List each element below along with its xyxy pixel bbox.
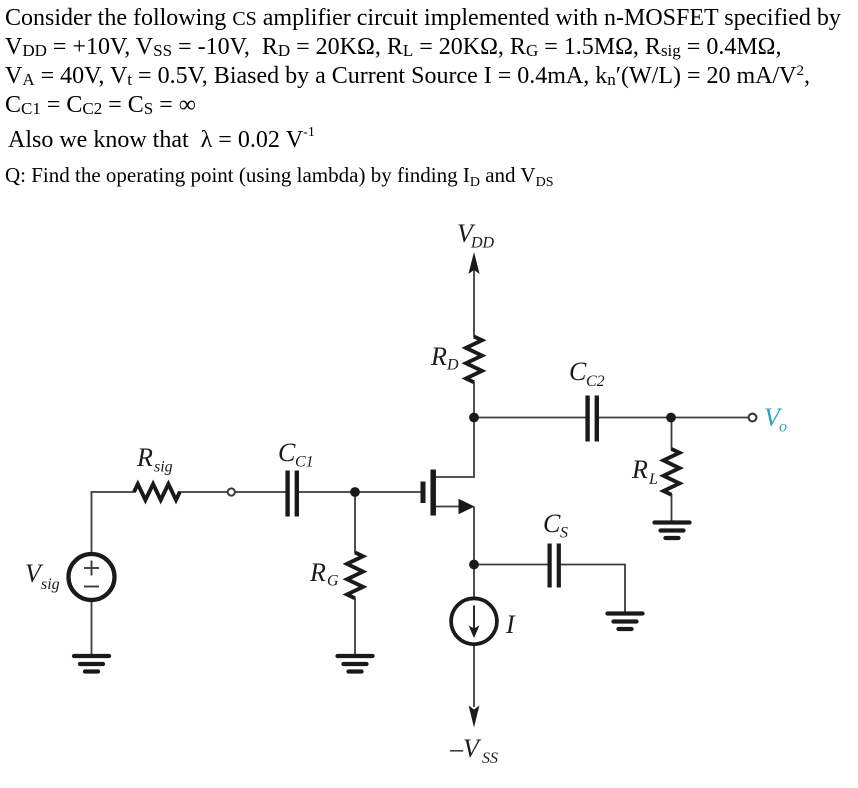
svg-text:G: G [327,573,339,590]
wire corner to Rsig [91,491,135,493]
wire CS to corner and ground [561,565,626,615]
current source I arrow [473,606,475,630]
svg-text:C: C [543,509,561,538]
resistor RD [466,337,482,383]
svg-text:R: R [136,443,153,472]
wire CC1 to gate [298,491,421,493]
svg-text:C2: C2 [586,373,605,390]
resistor Rsig [134,484,180,500]
svg-text:I: I [505,610,516,639]
resistor RG [347,553,363,599]
wire MOSFET drain up to drain node [436,418,475,478]
wire output node to RL [671,418,673,451]
wire Rsig to open node [178,491,228,493]
wire MOSFET source down to source node [473,507,475,566]
wire current source to VSS arrow [473,643,475,707]
paragraph line 2 [5,35,782,59]
power VDD arrowhead [468,252,479,274]
svg-text:D: D [446,357,459,374]
node source [469,560,479,570]
source Vsig circle [69,554,115,600]
wire RG to ground [354,598,356,656]
ground at Vsig [74,656,109,672]
paragraph line 6 [5,165,554,190]
current source I circle [451,598,497,644]
ground at RG [338,656,373,672]
wire CC2 to output node [598,417,671,419]
svg-text:SS: SS [482,750,498,767]
transistor Q1 NMOS gate bar [421,482,426,504]
svg-text:R: R [309,558,326,587]
paragraph line 4 [5,93,196,117]
wire open node to CC1 [235,491,286,493]
wire VDD arrow stem to RD [473,262,475,337]
node drain [469,413,479,423]
wire RD to drain node [473,382,475,418]
ground at CS [608,614,643,630]
transistor Q1 NMOS channel bar [430,470,436,516]
svg-text:sig: sig [41,576,60,593]
wire source node to current source [473,565,475,601]
svg-text:S: S [560,525,568,542]
wire Vsig to corner [91,491,93,556]
svg-text:C: C [278,438,296,467]
node gate [350,487,360,497]
ground at RL [655,523,690,539]
svg-text:C: C [569,357,587,386]
wire output node to Vo terminal [671,417,749,419]
resistor RL [664,449,680,495]
svg-text:sig: sig [154,459,173,476]
power -VSS arrowhead [469,706,480,728]
capacitor CC1 [288,471,297,517]
terminal Vo open circle [749,414,757,422]
paragraph line 1 [5,6,841,30]
svg-text:R: R [430,342,447,371]
svg-text:DD: DD [470,235,495,252]
wire drain node to CC2 [474,417,586,419]
node output [666,413,676,423]
wire RL to ground [671,494,673,522]
wire gate node to RG [354,492,356,553]
paragraph line 3 [5,64,810,88]
transistor Q1 source wire and arrow [436,506,461,508]
source Vsig plus sign [84,561,99,587]
capacitor CC2 [588,396,597,442]
node open circle after Rsig [228,488,235,495]
wire source node to CS [474,564,548,566]
paragraph line 5 [8,126,315,152]
svg-text:–V: –V [449,734,482,763]
svg-text:R: R [631,455,648,484]
svg-text:C1: C1 [295,454,314,471]
svg-text:o: o [779,419,787,436]
svg-text:L: L [648,471,658,488]
capacitor CS [550,544,559,588]
wire Vsig to ground [91,598,93,656]
